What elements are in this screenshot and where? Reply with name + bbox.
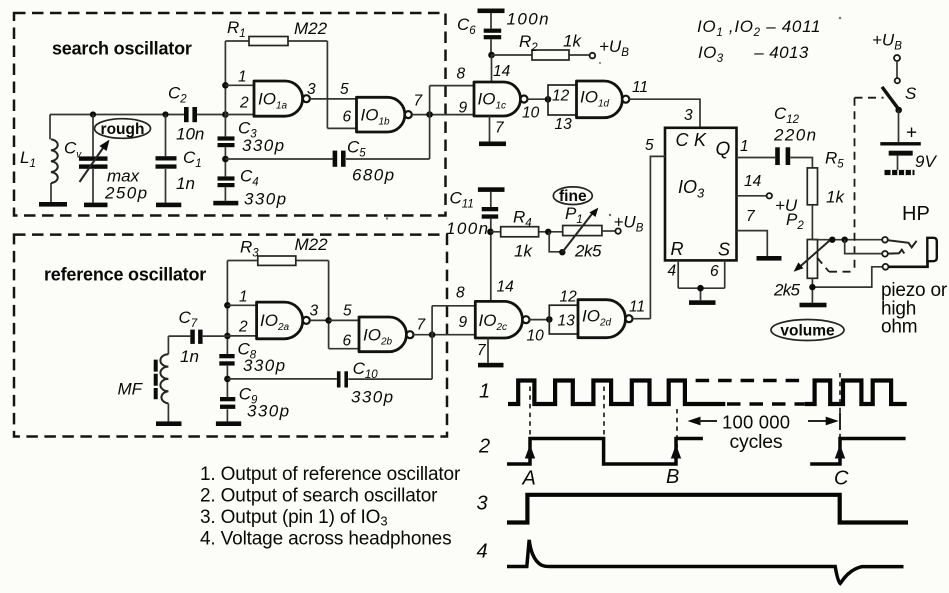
marker dashed C: [839, 373, 841, 446]
svg-text:6: 6: [343, 333, 352, 350]
pins 5/6 bracket IO2b: [329, 303, 359, 350]
list text lines: [200, 464, 461, 550]
svg-text:2: 2: [238, 319, 248, 336]
svg-text:+UB: +UB: [614, 213, 644, 235]
resistor R1: [225, 18, 327, 46]
label HP: [902, 203, 930, 225]
ground (L1): [39, 202, 67, 207]
svg-text:10: 10: [527, 328, 545, 345]
svg-text:1k: 1k: [826, 188, 845, 207]
wire pin14 IO3 to +U: [737, 173, 798, 215]
label fine: [553, 187, 592, 205]
resistor R2: [492, 32, 590, 61]
svg-text:IO1b: IO1b: [361, 106, 391, 128]
waveform 1 square wave: [508, 381, 725, 405]
wire pin7 ground IO2c: [477, 338, 488, 363]
wire pin5 IO3 (from IO2d pin 11): [645, 137, 665, 319]
flip-flop IO3: [665, 128, 737, 261]
svg-text:6: 6: [343, 109, 352, 126]
waveform 1 omitted-cycles dashed bottom: [727, 402, 805, 406]
pin 7 output wire IO1b: [412, 93, 474, 118]
capacitor C1: [156, 115, 202, 203]
svg-text:9: 9: [459, 314, 468, 331]
svg-text:9V: 9V: [915, 152, 937, 171]
dashed box: search oscillator: [14, 13, 446, 216]
node C11/R4/pin14: [487, 229, 494, 236]
svg-text:C7: C7: [179, 308, 198, 330]
wire R5 to P2: [811, 205, 813, 240]
wire pin7 ground IO1c: [490, 116, 506, 142]
svg-text:B: B: [666, 466, 679, 488]
nand gate IO2b: [359, 317, 414, 352]
ground (Cv): [84, 203, 108, 208]
wires pins 4/6 R S to ground: [668, 260, 725, 300]
node label C: [834, 468, 849, 490]
svg-text:12: 12: [552, 88, 570, 105]
label rough: [95, 119, 151, 139]
wire pin2: [225, 95, 254, 115]
wire pin1 Q output: [737, 138, 776, 158]
svg-text:3: 3: [477, 493, 488, 515]
svg-text:7: 7: [414, 93, 424, 110]
ground (IO2c pin7): [478, 363, 504, 368]
wire P2 bottom / return: [809, 267, 882, 303]
nand gate IO2c: [475, 301, 529, 338]
waveform 2 label: [478, 436, 490, 458]
svg-text:1: 1: [740, 138, 749, 155]
svg-text:A: A: [522, 468, 536, 490]
svg-text:+: +: [906, 123, 917, 144]
potentiometer P2: [773, 210, 832, 300]
terminal +UB (battery): [872, 31, 902, 62]
ground (C4): [213, 201, 238, 206]
wire pin7 IO3 to ground: [737, 208, 768, 256]
dashed box: reference oscillator: [14, 235, 447, 437]
node label A: [522, 468, 536, 490]
svg-text:5: 5: [645, 137, 654, 154]
waveform 1 resumed pulses: [805, 381, 907, 405]
svg-text:+UB: +UB: [872, 31, 902, 53]
waveform 2 after break: [810, 439, 905, 465]
svg-text:IO2c: IO2c: [479, 311, 508, 333]
terminal +UB (P1): [602, 213, 644, 235]
svg-text:100n: 100n: [507, 10, 550, 29]
capacitor C4: [218, 166, 288, 208]
nand gate IO1c: [474, 82, 528, 116]
svg-text:12: 12: [560, 289, 578, 306]
marker dashed B: [676, 409, 678, 458]
pin 3 output wire: [307, 81, 327, 99]
junction dots on rail: [222, 82, 229, 162]
svg-text:7: 7: [495, 120, 505, 137]
svg-text:C: C: [834, 468, 849, 490]
wire pin9 IO1c: [459, 100, 468, 117]
wire pin2 IO2a: [227, 319, 256, 336]
wire feedback vertical from R3/M22: [328, 261, 330, 349]
svg-text:680p: 680p: [352, 165, 395, 184]
waveform 4 headphone voltage: [507, 540, 904, 584]
wire main node y=114.5: [50, 114, 225, 116]
waveform 3 label: [477, 493, 488, 515]
edge arrow C: [835, 445, 845, 459]
svg-text:250p: 250p: [104, 184, 148, 203]
ground (P2): [800, 303, 827, 308]
svg-text:C5: C5: [347, 137, 366, 159]
capacitor C8: [219, 339, 286, 375]
svg-text:4. Voltage across headphones: 4. Voltage across headphones: [200, 529, 451, 550]
resistor R4: [490, 208, 562, 261]
wire pin1 IO2a: [227, 289, 256, 306]
resistor R3: [227, 235, 328, 265]
switch S: [882, 61, 917, 113]
svg-text:rough: rough: [101, 121, 145, 138]
svg-text:1n: 1n: [180, 347, 199, 366]
svg-text:330p: 330p: [244, 189, 287, 208]
svg-text:100n: 100n: [446, 219, 489, 238]
svg-text:IO2a: IO2a: [260, 311, 290, 333]
svg-text:2: 2: [478, 436, 490, 458]
pins 12/13 box IO1d: [548, 85, 577, 133]
svg-text:IO3 – 4013: IO3 – 4013: [698, 43, 809, 65]
waveform 2 search osc output: [507, 439, 703, 465]
svg-text:IO3: IO3: [678, 177, 705, 201]
wire P2 top node to jack: [812, 237, 882, 243]
ground (C1): [156, 203, 181, 208]
svg-text:14: 14: [744, 173, 762, 190]
svg-text:2: 2: [239, 95, 249, 112]
svg-text:reference oscillator: reference oscillator: [44, 265, 206, 285]
svg-text:14: 14: [493, 63, 511, 80]
wire pin1: [225, 69, 254, 86]
capacitor C2: [168, 84, 204, 144]
capacitor C12: [773, 104, 817, 165]
svg-text:S: S: [905, 84, 917, 103]
svg-text:ohm: ohm: [881, 317, 917, 338]
svg-text:3: 3: [684, 107, 693, 124]
edge arrow A: [525, 445, 535, 459]
svg-text:L1: L1: [20, 148, 36, 170]
svg-text:Q: Q: [716, 139, 731, 160]
svg-text:10: 10: [522, 105, 540, 122]
wire pin8 IO2c: [432, 285, 475, 335]
nand gate IO1d: [577, 81, 630, 118]
svg-text:R2: R2: [519, 32, 538, 54]
svg-text:C1: C1: [183, 148, 202, 170]
svg-text:1: 1: [239, 289, 248, 306]
svg-text:5: 5: [340, 81, 349, 98]
pin 7 output wire IO2b: [414, 317, 476, 339]
svg-text:IO1 ,IO2 – 4011: IO1 ,IO2 – 4011: [697, 17, 821, 39]
svg-text:2. Output of search oscillator: 2. Output of search oscillator: [200, 486, 438, 507]
inductor L1: [20, 115, 58, 203]
svg-text:MF: MF: [118, 380, 144, 399]
svg-text:330p: 330p: [247, 402, 290, 421]
svg-text:11: 11: [632, 79, 648, 96]
svg-text:IO1a: IO1a: [258, 90, 288, 112]
svg-text:C11: C11: [450, 189, 474, 211]
svg-text:9: 9: [459, 100, 468, 117]
waveform 3 IO3 output: [507, 495, 908, 523]
capacitor C5 with wires: [225, 86, 429, 185]
svg-text:M22: M22: [295, 235, 329, 254]
svg-text:R4: R4: [513, 208, 532, 230]
svg-text:10n: 10n: [176, 125, 204, 144]
wire pin10 output IO2c: [527, 316, 553, 344]
svg-text:1k: 1k: [563, 32, 582, 51]
svg-text:C6: C6: [457, 15, 476, 37]
svg-text:1. Output of reference oscilla: 1. Output of reference oscillator: [200, 464, 461, 485]
pins 12/13 box IO2d: [549, 289, 578, 335]
svg-text:4: 4: [477, 541, 488, 563]
ground (C9): [216, 421, 241, 426]
transformer MF: [118, 354, 169, 421]
svg-text:1: 1: [238, 69, 247, 86]
svg-text:1k: 1k: [514, 242, 533, 261]
svg-text:volume: volume: [780, 322, 835, 339]
measure arrow left: [688, 417, 718, 426]
svg-text:2k5: 2k5: [574, 242, 602, 261]
wire pin8 IO1c: [430, 66, 474, 86]
waveform 1 label: [479, 381, 490, 403]
node A junction dots: [90, 111, 229, 118]
svg-text:C4: C4: [240, 166, 259, 188]
svg-text:6: 6: [710, 263, 719, 280]
capacitor C6: [457, 9, 550, 56]
svg-text:Cv: Cv: [64, 139, 82, 161]
rail x=225.4 with C3 C4: [224, 41, 226, 201]
svg-text:R1: R1: [227, 18, 246, 40]
svg-text:R: R: [671, 239, 684, 259]
ground (MF): [156, 421, 182, 426]
svg-text:1n: 1n: [176, 174, 195, 193]
nand gate IO2a: [257, 302, 310, 339]
svg-text:R5: R5: [825, 148, 844, 170]
svg-text:2k5: 2k5: [773, 281, 801, 300]
svg-text:+UB: +UB: [599, 37, 629, 59]
svg-text:3: 3: [307, 81, 316, 98]
svg-text:330p: 330p: [243, 356, 286, 375]
ground (IO3 R/S): [689, 300, 716, 305]
jack contact 1: [882, 237, 916, 247]
wire pin9 IO2c: [459, 314, 468, 331]
wire pin14 IO1c: [492, 55, 511, 82]
svg-text:5: 5: [343, 303, 352, 320]
svg-text:IO1c: IO1c: [478, 90, 507, 112]
title: search oscillator: [52, 39, 192, 59]
jack contact 2: [845, 240, 905, 257]
svg-text:220n: 220n: [773, 126, 817, 145]
svg-text:IO2b: IO2b: [363, 325, 393, 347]
marker dashed (wave2 fall): [603, 387, 605, 459]
svg-text:1: 1: [479, 381, 490, 403]
svg-text:4: 4: [668, 263, 677, 280]
nand gate IO1a: [254, 81, 310, 116]
scan specks: [351, 17, 842, 492]
svg-text:C10: C10: [353, 359, 379, 381]
title: reference oscillator: [44, 265, 206, 285]
svg-text:IO1d: IO1d: [580, 88, 610, 110]
pin 3 output wire IO2a: [310, 303, 332, 324]
measure arrow right: [808, 417, 839, 426]
svg-text:13: 13: [555, 116, 573, 133]
wire C12 to R5: [790, 158, 812, 168]
svg-text:CK: CK: [676, 130, 712, 150]
svg-text:R3: R3: [240, 237, 259, 259]
capacitor Cv (variable): [64, 115, 148, 203]
svg-text:C2: C2: [168, 84, 187, 106]
capacitor C11: [446, 187, 505, 301]
svg-text:C12: C12: [774, 104, 800, 126]
svg-text:13: 13: [558, 313, 576, 330]
nand gate IO1b: [357, 97, 412, 132]
wire pin11 output IO1d to CK: [629, 79, 700, 128]
node C6/R2/pin14: [488, 52, 495, 59]
label piezo or high ohm: [881, 280, 948, 338]
wire pin11 output IO2d: [629, 299, 650, 319]
pins 5/6 bracket: [327, 81, 356, 128]
wire feedback vertical from R1/M22: [326, 41, 328, 128]
capacitor C9: [220, 384, 290, 420]
text 100 000 cycles: [722, 412, 790, 454]
svg-text:330p: 330p: [242, 136, 285, 155]
battery 9V: [880, 110, 937, 175]
svg-text:search oscillator: search oscillator: [52, 39, 192, 59]
svg-text:P1: P1: [565, 204, 583, 226]
ground (IO1c pin7): [479, 142, 506, 147]
capacitor C7: [168, 308, 227, 366]
marker dashed A: [529, 387, 531, 445]
svg-text:14: 14: [497, 279, 515, 296]
rail x=227.4 reference: [224, 261, 231, 422]
svg-text:8: 8: [457, 66, 466, 83]
potentiometer P1 (rheostat): [545, 204, 602, 261]
svg-text:3. Output (pin 1) of IO3: 3. Output (pin 1) of IO3: [200, 507, 387, 529]
svg-text:M22: M22: [294, 19, 328, 38]
svg-text:P2: P2: [786, 210, 804, 232]
svg-text:7: 7: [477, 342, 487, 359]
svg-text:8: 8: [456, 285, 465, 302]
svg-text:HP: HP: [902, 203, 930, 225]
wire pin10 output IO1c: [522, 96, 551, 122]
svg-text:11: 11: [629, 299, 645, 316]
text IC list 4011/4013: [697, 17, 821, 65]
edge arrow B: [671, 445, 681, 459]
waveform 1 omitted-cycles dashed top: [696, 379, 805, 383]
svg-text:3: 3: [310, 303, 319, 320]
ground (IO3 pin7): [757, 256, 782, 261]
svg-text:330p: 330p: [351, 388, 394, 407]
wire pin14 IO2c label: [497, 279, 515, 296]
capacitor C3: [218, 118, 286, 155]
dashed boundary HP block: [817, 98, 884, 272]
terminal +UB (R2): [590, 37, 630, 59]
jack contact 3 / tip: [883, 238, 937, 270]
label volume: [771, 320, 844, 341]
svg-text:cycles: cycles: [730, 431, 783, 453]
svg-text:IO2d: IO2d: [582, 307, 612, 329]
svg-text:7: 7: [417, 317, 427, 334]
svg-text:fine: fine: [559, 188, 587, 205]
svg-text:7: 7: [746, 208, 756, 225]
node label B: [666, 466, 679, 488]
waveform 4 label: [477, 541, 488, 563]
svg-text:S: S: [718, 240, 730, 260]
nand gate IO2d: [578, 300, 633, 338]
svg-text:100 000: 100 000: [722, 412, 790, 433]
capacitor C10 with wires: [227, 335, 432, 407]
resistor R5: [807, 148, 845, 206]
